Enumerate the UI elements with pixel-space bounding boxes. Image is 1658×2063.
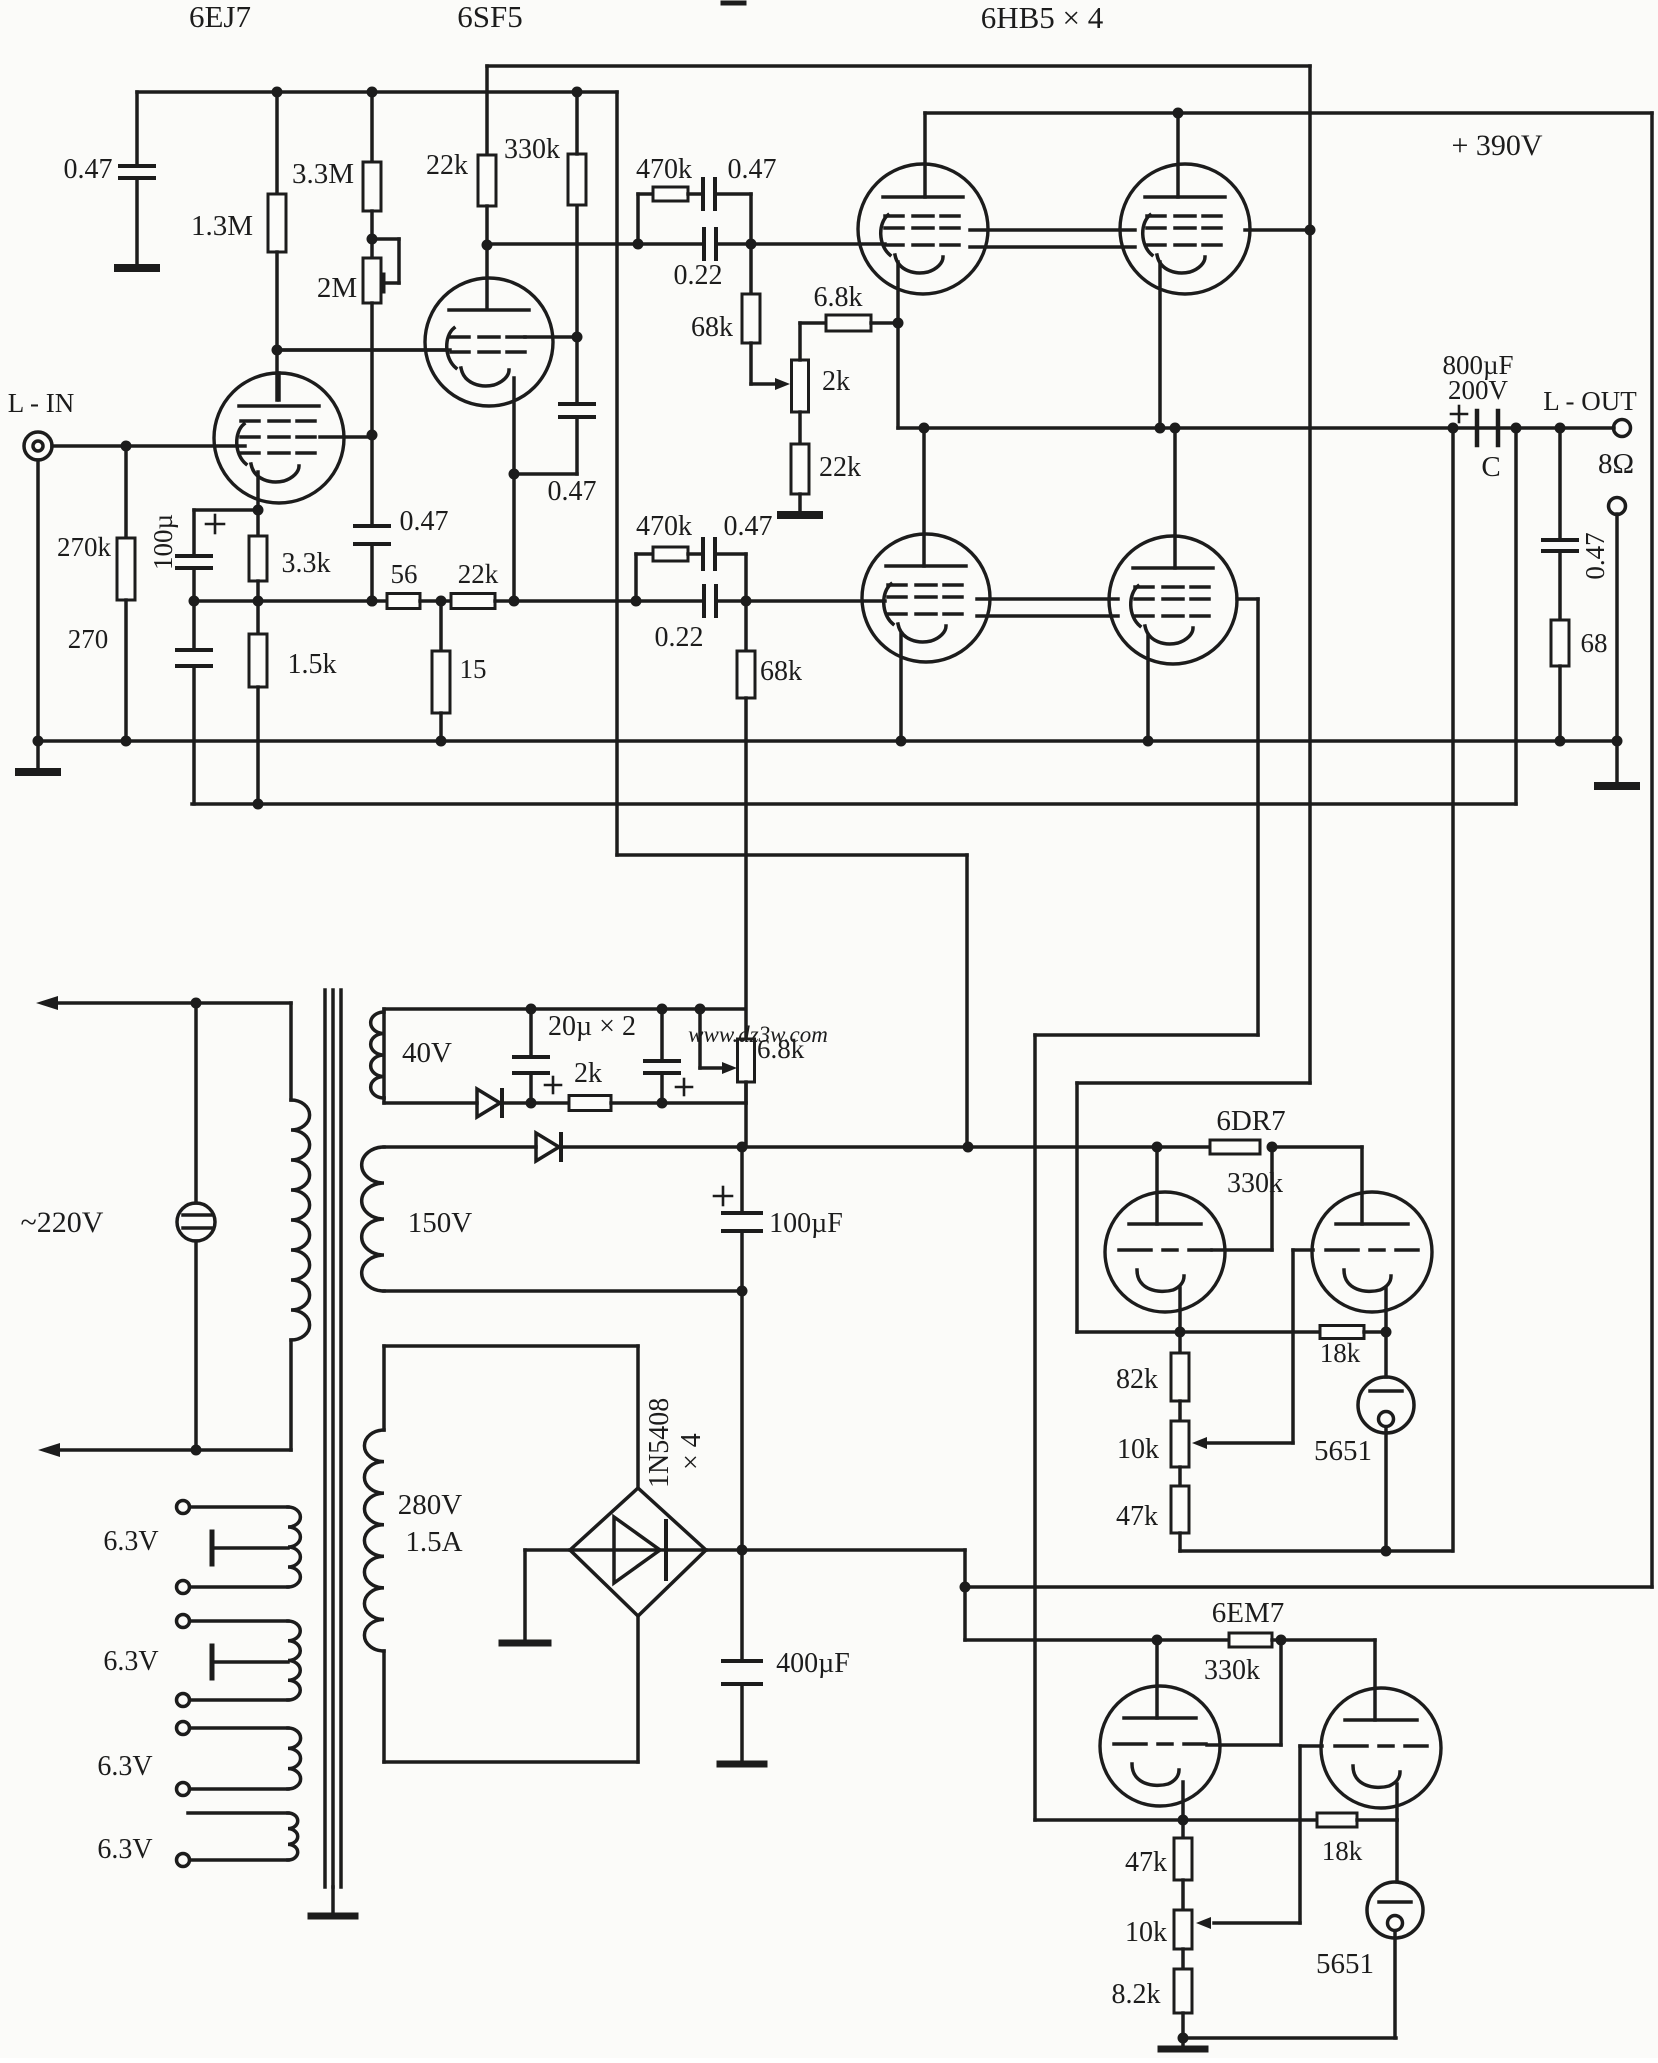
svg-text:8Ω: 8Ω: [1598, 448, 1634, 480]
svg-text:5651: 5651: [1316, 1948, 1374, 1980]
svg-text:270: 270: [68, 624, 109, 654]
svg-text:68k: 68k: [760, 656, 802, 687]
svg-text:0.22: 0.22: [674, 260, 723, 291]
svg-text:6.3V: 6.3V: [103, 1526, 158, 1557]
svg-text:6.3V: 6.3V: [97, 1751, 152, 1782]
svg-text:280V: 280V: [398, 1489, 463, 1521]
svg-text:~220V: ~220V: [21, 1206, 104, 1239]
svg-text:+ 390V: + 390V: [1451, 129, 1542, 162]
svg-text:6EJ7: 6EJ7: [189, 0, 251, 34]
svg-text:22k: 22k: [458, 559, 499, 589]
svg-text:3.3M: 3.3M: [292, 158, 354, 190]
svg-text:2k: 2k: [574, 1058, 602, 1089]
svg-text:10k: 10k: [1125, 1917, 1167, 1948]
svg-text:330k: 330k: [1204, 1655, 1260, 1686]
svg-text:47k: 47k: [1125, 1847, 1167, 1878]
svg-text:15: 15: [460, 654, 487, 684]
svg-text:L - OUT: L - OUT: [1543, 386, 1637, 416]
svg-text:18k: 18k: [1322, 1836, 1363, 1866]
svg-text:6DR7: 6DR7: [1216, 1105, 1285, 1137]
svg-text:47k: 47k: [1116, 1501, 1158, 1532]
svg-text:3.3k: 3.3k: [282, 548, 331, 579]
svg-text:68k: 68k: [691, 312, 733, 343]
svg-text:100µ: 100µ: [148, 514, 178, 570]
svg-text:0.47: 0.47: [728, 154, 777, 185]
svg-text:400µF: 400µF: [776, 1648, 850, 1679]
svg-text:6HB5 × 4: 6HB5 × 4: [981, 0, 1104, 35]
svg-text:68: 68: [1581, 628, 1608, 658]
svg-text:330k: 330k: [504, 134, 560, 165]
svg-text:1N5408: 1N5408: [644, 1398, 675, 1488]
svg-text:330k: 330k: [1227, 1168, 1283, 1199]
svg-text:1.5A: 1.5A: [405, 1526, 462, 1558]
svg-text:0.47: 0.47: [1580, 532, 1610, 579]
svg-text:C: C: [1481, 451, 1500, 483]
svg-text:1.3M: 1.3M: [191, 210, 253, 242]
svg-text:40V: 40V: [402, 1037, 452, 1069]
svg-text:56: 56: [391, 559, 418, 589]
svg-text:22k: 22k: [426, 150, 468, 181]
svg-text:0.22: 0.22: [655, 622, 704, 653]
svg-text:6.3V: 6.3V: [103, 1646, 158, 1677]
svg-text:100µF: 100µF: [769, 1208, 843, 1239]
svg-text:www.dz3w.com: www.dz3w.com: [688, 1022, 828, 1047]
svg-text:22k: 22k: [819, 452, 861, 483]
svg-text:6SF5: 6SF5: [457, 0, 522, 34]
svg-text:10k: 10k: [1117, 1434, 1159, 1465]
svg-text:0.47: 0.47: [64, 154, 113, 185]
svg-text:470k: 470k: [636, 511, 692, 542]
svg-text:6.3V: 6.3V: [97, 1834, 152, 1865]
svg-text:5651: 5651: [1314, 1435, 1372, 1467]
svg-text:82k: 82k: [1116, 1364, 1158, 1395]
svg-text:8.2k: 8.2k: [1112, 1979, 1161, 2010]
svg-text:1.5k: 1.5k: [288, 649, 337, 680]
svg-text:0.47: 0.47: [400, 506, 449, 537]
svg-text:18k: 18k: [1320, 1338, 1361, 1368]
svg-text:0.47: 0.47: [548, 476, 597, 507]
svg-text:200V: 200V: [1448, 375, 1509, 405]
svg-text:2k: 2k: [822, 366, 850, 397]
svg-text:2M: 2M: [317, 272, 357, 304]
svg-text:150V: 150V: [408, 1207, 473, 1239]
svg-text:6EM7: 6EM7: [1212, 1597, 1285, 1629]
svg-text:270k: 270k: [57, 532, 112, 562]
svg-text:× 4: × 4: [676, 1433, 707, 1470]
svg-text:20µ × 2: 20µ × 2: [548, 1011, 636, 1042]
svg-text:L - IN: L - IN: [8, 388, 74, 418]
svg-text:6.8k: 6.8k: [814, 282, 863, 313]
svg-text:0.47: 0.47: [724, 511, 773, 542]
svg-text:470k: 470k: [636, 154, 692, 185]
